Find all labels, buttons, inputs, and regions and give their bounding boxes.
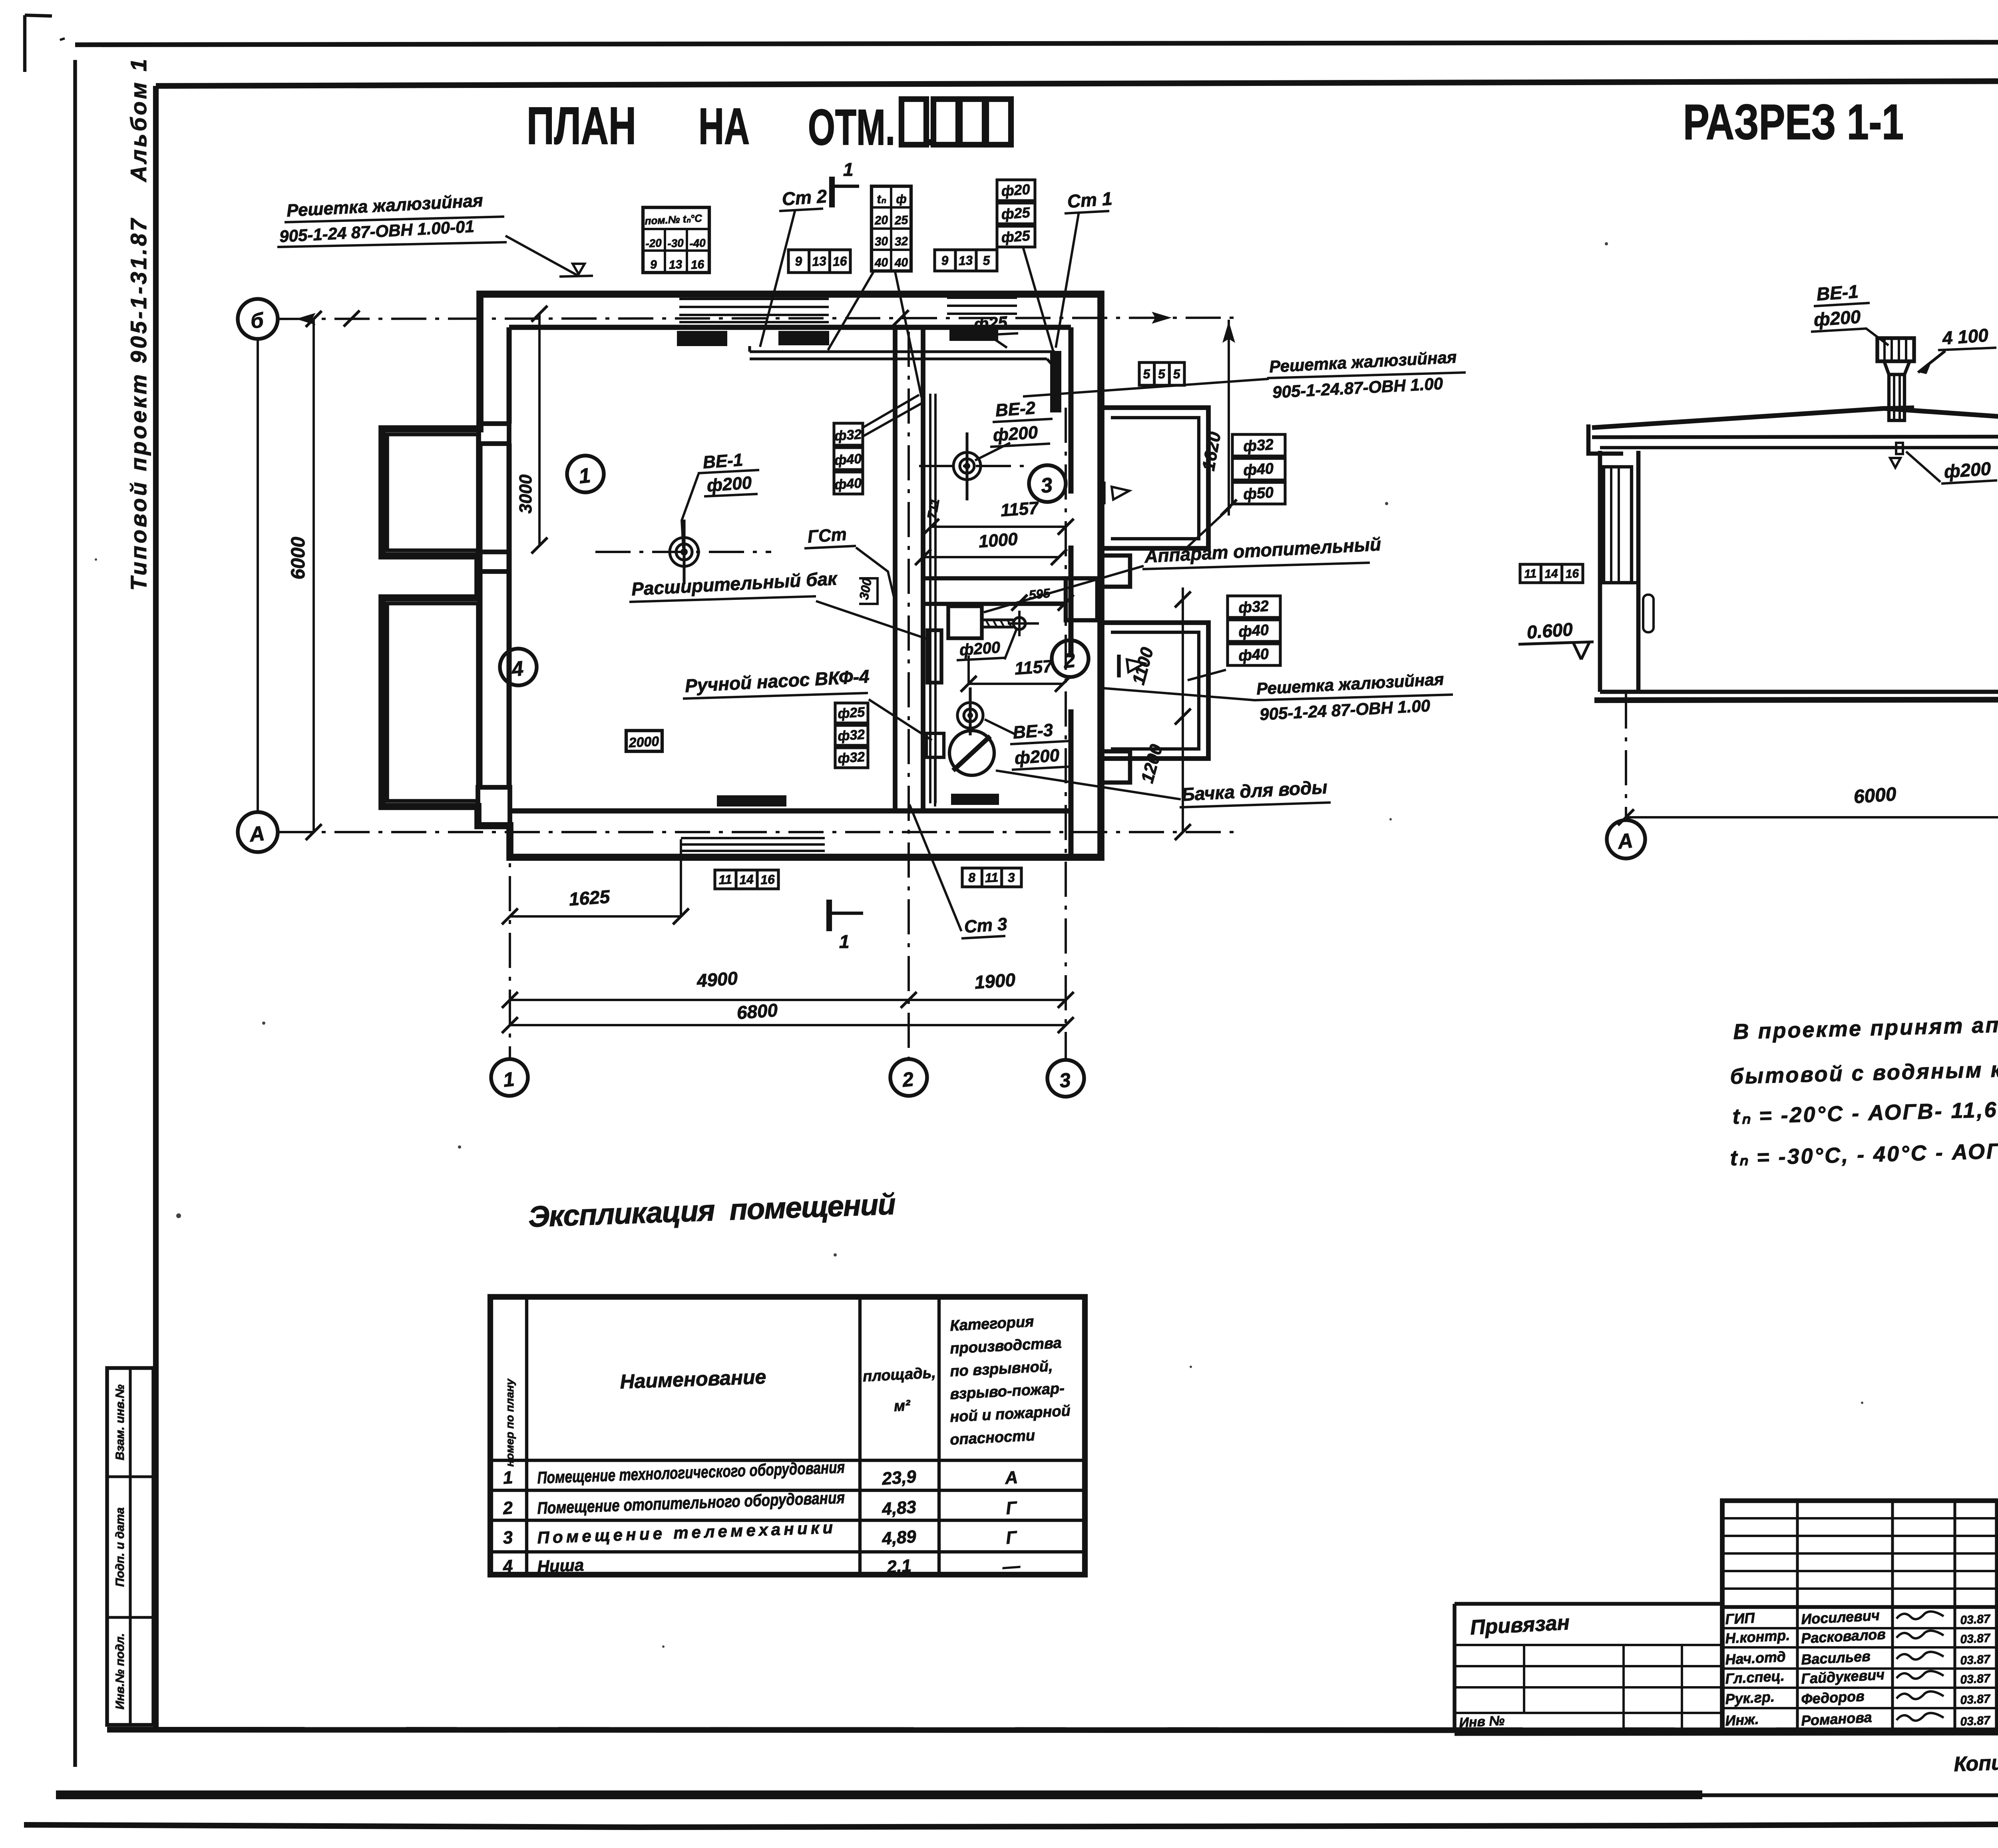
svg-text:ВЕ-1: ВЕ-1 — [702, 450, 743, 472]
svg-text:Взам. инв.№: Взам. инв.№ — [113, 1384, 127, 1460]
svg-text:ф40: ф40 — [1238, 645, 1270, 664]
svg-text:30: 30 — [874, 235, 888, 249]
svg-text:03.87: 03.87 — [1960, 1714, 1991, 1729]
svg-text:13: 13 — [812, 254, 827, 269]
svg-text:16: 16 — [691, 258, 704, 272]
svg-text:ф20: ф20 — [1001, 181, 1031, 199]
svg-text:2: 2 — [502, 1498, 513, 1518]
svg-text:16: 16 — [1565, 567, 1579, 581]
svg-text:ГСт: ГСт — [807, 524, 847, 547]
svg-text:1: 1 — [578, 464, 592, 488]
svg-text:8: 8 — [968, 870, 976, 885]
svg-text:-20: -20 — [645, 237, 662, 250]
svg-text:м²: м² — [894, 1397, 911, 1415]
svg-text:Н.контр.: Н.контр. — [1725, 1627, 1790, 1647]
svg-text:4900: 4900 — [696, 968, 738, 991]
svg-text:6000: 6000 — [1853, 784, 1897, 808]
svg-text:5: 5 — [1158, 366, 1166, 381]
svg-text:ф40: ф40 — [834, 451, 862, 468]
svg-text:Подп. и дата: Подп. и дата — [113, 1507, 127, 1587]
svg-text:16: 16 — [832, 254, 848, 269]
svg-text:6000: 6000 — [288, 537, 309, 579]
svg-text:2,1: 2,1 — [886, 1556, 912, 1577]
svg-text:ф200: ф200 — [1813, 306, 1861, 330]
svg-text:9: 9 — [941, 253, 949, 268]
svg-text:5: 5 — [983, 253, 991, 268]
svg-text:ф32: ф32 — [1238, 597, 1270, 616]
svg-text:Федоров: Федоров — [1801, 1688, 1865, 1707]
svg-text:3: 3 — [1007, 870, 1015, 885]
svg-text:13: 13 — [958, 253, 973, 268]
svg-text:4,83: 4,83 — [881, 1497, 917, 1519]
svg-text:Гл.спец.: Гл.спец. — [1725, 1667, 1785, 1687]
svg-text:Рук.гр.: Рук.гр. — [1725, 1689, 1775, 1707]
svg-text:tₙ: tₙ — [877, 192, 887, 206]
svg-text:3: 3 — [502, 1527, 513, 1548]
svg-text:23,9: 23,9 — [881, 1467, 917, 1489]
svg-text:11: 11 — [718, 872, 732, 887]
svg-text:1: 1 — [839, 931, 850, 952]
svg-text:1: 1 — [502, 1468, 513, 1488]
svg-text:ф25: ф25 — [1001, 227, 1031, 246]
svg-text:ВЕ-2: ВЕ-2 — [995, 398, 1036, 420]
svg-text:Инв.№ подл.: Инв.№ подл. — [113, 1633, 127, 1709]
svg-text:ф25: ф25 — [1001, 204, 1031, 223]
svg-text:ПЛАН: ПЛАН — [527, 96, 636, 155]
svg-text:03.87: 03.87 — [1960, 1653, 1991, 1667]
svg-text:2000: 2000 — [628, 734, 660, 751]
svg-text:ф50: ф50 — [1243, 484, 1274, 503]
svg-text:номер по плану: номер по плану — [503, 1378, 516, 1467]
svg-text:ф25: ф25 — [837, 705, 866, 722]
svg-text:6800: 6800 — [736, 1000, 778, 1023]
svg-text:14: 14 — [739, 872, 754, 887]
svg-text:03.87: 03.87 — [1960, 1692, 1991, 1707]
svg-text:4: 4 — [502, 1556, 513, 1577]
svg-text:ф200: ф200 — [992, 422, 1039, 445]
svg-text:9: 9 — [650, 258, 657, 272]
svg-text:11: 11 — [985, 870, 999, 885]
svg-text:4: 4 — [510, 657, 525, 681]
svg-text:1: 1 — [502, 1068, 515, 1091]
svg-text:1625: 1625 — [568, 886, 611, 910]
svg-text:Инж.: Инж. — [1725, 1711, 1759, 1729]
svg-text:ф32: ф32 — [837, 727, 865, 744]
svg-text:4 100: 4 100 — [1941, 325, 1989, 348]
svg-text:03.87: 03.87 — [1960, 1672, 1991, 1687]
svg-text:16: 16 — [760, 872, 775, 887]
svg-text:20: 20 — [874, 213, 888, 227]
svg-text:А: А — [1616, 829, 1634, 854]
svg-text:3000: 3000 — [516, 474, 535, 514]
svg-text:НА: НА — [699, 98, 750, 155]
svg-text:—: — — [1001, 1556, 1021, 1577]
svg-text:Типовой проект 905-1-31.87: Типовой проект 905-1-31.87 Альбом 1 — [126, 57, 151, 591]
svg-text:40: 40 — [894, 256, 908, 270]
svg-text:ф25: ф25 — [973, 313, 1008, 334]
svg-text:Инв №: Инв № — [1459, 1713, 1505, 1731]
svg-text:ф: ф — [896, 192, 907, 206]
svg-text:32: 32 — [894, 235, 908, 249]
svg-text:ф200: ф200 — [706, 473, 752, 496]
svg-text:ОТМ.: ОТМ. — [808, 99, 895, 155]
svg-text:1000: 1000 — [978, 529, 1019, 552]
svg-text:9: 9 — [794, 254, 802, 269]
svg-text:Ст 2: Ст 2 — [781, 185, 828, 209]
svg-text:-30: -30 — [667, 237, 684, 250]
svg-text:2: 2 — [1062, 649, 1077, 673]
svg-text:ф40: ф40 — [1238, 621, 1270, 640]
svg-text:13: 13 — [669, 258, 683, 272]
svg-text:0.600: 0.600 — [1526, 619, 1574, 643]
svg-text:4,89: 4,89 — [881, 1527, 917, 1549]
svg-text:ф40: ф40 — [1243, 460, 1274, 479]
svg-text:1900: 1900 — [974, 969, 1016, 993]
svg-text:Ст 3: Ст 3 — [963, 914, 1008, 937]
svg-text:11: 11 — [1524, 567, 1537, 581]
svg-text:ф32: ф32 — [837, 749, 865, 767]
svg-text:1: 1 — [843, 159, 854, 180]
svg-text:Ст 1: Ст 1 — [1067, 188, 1113, 212]
svg-text:5: 5 — [1142, 366, 1151, 381]
svg-text:Ниша: Ниша — [537, 1555, 584, 1576]
svg-text:ф32: ф32 — [834, 427, 862, 444]
svg-text:Нач.отд: Нач.отд — [1725, 1648, 1786, 1668]
svg-text:03.87: 03.87 — [1960, 1612, 1991, 1627]
svg-text:25: 25 — [894, 213, 909, 227]
svg-text:1157: 1157 — [1014, 656, 1054, 679]
svg-text:ф200: ф200 — [1014, 745, 1060, 768]
svg-text:А: А — [248, 822, 266, 846]
svg-text:3: 3 — [1040, 474, 1054, 498]
svg-text:14: 14 — [1544, 567, 1558, 581]
svg-text:5: 5 — [1173, 366, 1181, 381]
svg-text:ф200: ф200 — [959, 639, 1001, 659]
svg-text:ф40: ф40 — [834, 476, 862, 493]
svg-text:А: А — [1004, 1468, 1018, 1488]
svg-text:ГИП: ГИП — [1725, 1609, 1755, 1627]
svg-text:2: 2 — [901, 1068, 915, 1091]
svg-text:ф32: ф32 — [1243, 436, 1274, 455]
svg-text:ф200: ф200 — [1943, 458, 1992, 482]
svg-text:ВЕ-3: ВЕ-3 — [1012, 720, 1053, 743]
svg-text:40: 40 — [874, 256, 888, 270]
svg-text:-40: -40 — [689, 237, 706, 250]
svg-text:РАЗРЕЗ 1-1: РАЗРЕЗ 1-1 — [1683, 95, 1904, 150]
svg-text:ВЕ-1: ВЕ-1 — [1816, 281, 1859, 305]
svg-text:1157: 1157 — [1000, 498, 1040, 520]
svg-text:03.87: 03.87 — [1960, 1631, 1991, 1646]
